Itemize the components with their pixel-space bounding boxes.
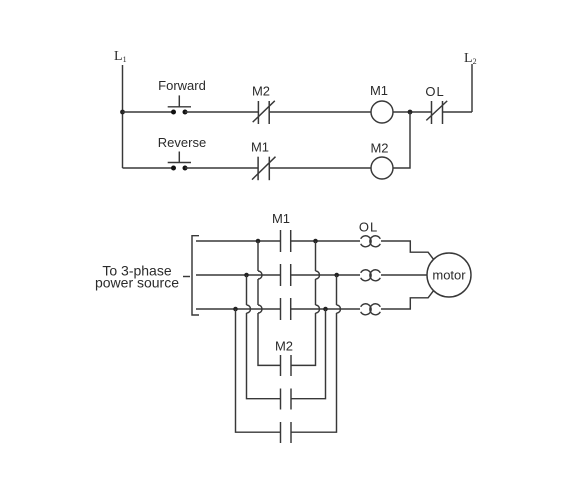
svg-text:L1: L1 — [114, 49, 127, 64]
pushbutton Forward (NO) — [168, 95, 191, 114]
wire tick to bracket — [183, 276, 190, 278]
overload heater OL phase C — [361, 304, 381, 315]
label M1 coil — [370, 83, 388, 98]
wire phase A left — [196, 240, 281, 242]
label Reverse — [158, 135, 206, 150]
overload heater OL phase A — [361, 236, 381, 247]
bracket 3-phase source — [192, 236, 199, 315]
contact M2 NC rung1 — [253, 101, 275, 124]
label M1 contact — [251, 140, 269, 155]
wire drop phase B left to loop2 — [247, 275, 281, 399]
label OL power — [359, 220, 378, 235]
wire OL to L2 rail — [443, 111, 473, 113]
wire L2 rail — [471, 64, 473, 112]
junction phase B right — [334, 273, 339, 278]
contact OL NC — [426, 101, 447, 124]
junction phase B left — [244, 273, 249, 278]
junction node rung1-rung2 — [408, 110, 413, 115]
label M2 contact — [252, 84, 270, 99]
svg-text:OL: OL — [359, 220, 378, 235]
wire drop phase A right to loop1 — [291, 241, 320, 365]
wire phase B left — [196, 274, 281, 276]
wire phase C left — [196, 308, 281, 310]
label M2 coil — [370, 141, 388, 156]
junction rung1 at L1 rail — [120, 110, 125, 115]
junction phase A right — [313, 239, 318, 244]
label M2 power — [275, 339, 293, 354]
wire L1 rail — [122, 65, 124, 168]
svg-text:Forward: Forward — [158, 78, 206, 93]
wire rung1 rail to Forward — [123, 111, 174, 113]
label M1 power — [272, 211, 290, 226]
label motor — [432, 268, 466, 283]
wire drop phase C right to loop2 — [291, 309, 326, 399]
junction phase A left — [256, 239, 261, 244]
svg-text:M2: M2 — [275, 339, 293, 354]
node L1 — [114, 49, 127, 64]
wire phase B right — [291, 274, 360, 276]
wire drop phase A left to loop1 — [258, 241, 281, 365]
contact M2 loop1 — [281, 355, 292, 376]
contact M1 phase B — [281, 264, 291, 286]
wire M2 contact to coil M1 — [269, 111, 371, 113]
label OL — [425, 84, 444, 99]
overload heater OL phase B — [361, 270, 381, 281]
svg-text:power source: power source — [95, 275, 179, 291]
svg-text:motor: motor — [432, 268, 466, 283]
wire drop phase B right to loop3 — [291, 275, 341, 432]
svg-text:Reverse: Reverse — [158, 135, 206, 150]
label Forward — [158, 78, 206, 93]
svg-text:M1: M1 — [272, 211, 290, 226]
contact M1 phase C — [281, 298, 291, 320]
wire drop phase C left to loop3 — [236, 309, 281, 432]
wire phase C right — [291, 308, 360, 310]
coil M2 — [371, 157, 393, 179]
node L2 — [464, 51, 477, 66]
wire Reverse to M1 contact — [185, 167, 258, 169]
wire OL phase C to motor — [381, 291, 434, 309]
contact M2 loop3 — [281, 422, 292, 443]
motor M — [427, 253, 471, 297]
contact M1 NC rung2 — [252, 157, 276, 181]
contact M1 phase A — [281, 230, 291, 252]
junction phase C right — [323, 307, 328, 312]
wire phase A right — [291, 240, 360, 242]
pushbutton Reverse (NO) — [168, 152, 191, 171]
svg-text:OL: OL — [425, 84, 444, 99]
wire coil M1 to junction — [393, 111, 432, 113]
svg-text:M1: M1 — [251, 140, 269, 155]
junction phase C left — [233, 307, 238, 312]
wire coil M2 to junction drop — [393, 112, 410, 168]
wire OL phase B to motor — [381, 274, 427, 276]
coil M1 — [371, 101, 393, 123]
contact M2 loop2 — [281, 389, 292, 410]
svg-text:M2: M2 — [370, 141, 388, 156]
svg-text:L2: L2 — [464, 51, 477, 66]
svg-text:M1: M1 — [370, 83, 388, 98]
wire M1 contact to coil M2 — [269, 167, 371, 169]
label To 3-phase power source — [95, 263, 179, 291]
wire Forward to M2 contact — [185, 111, 258, 113]
wire OL phase A to motor — [381, 241, 434, 259]
wire rung2 rail to Reverse — [123, 167, 174, 169]
svg-text:M2: M2 — [252, 84, 270, 99]
